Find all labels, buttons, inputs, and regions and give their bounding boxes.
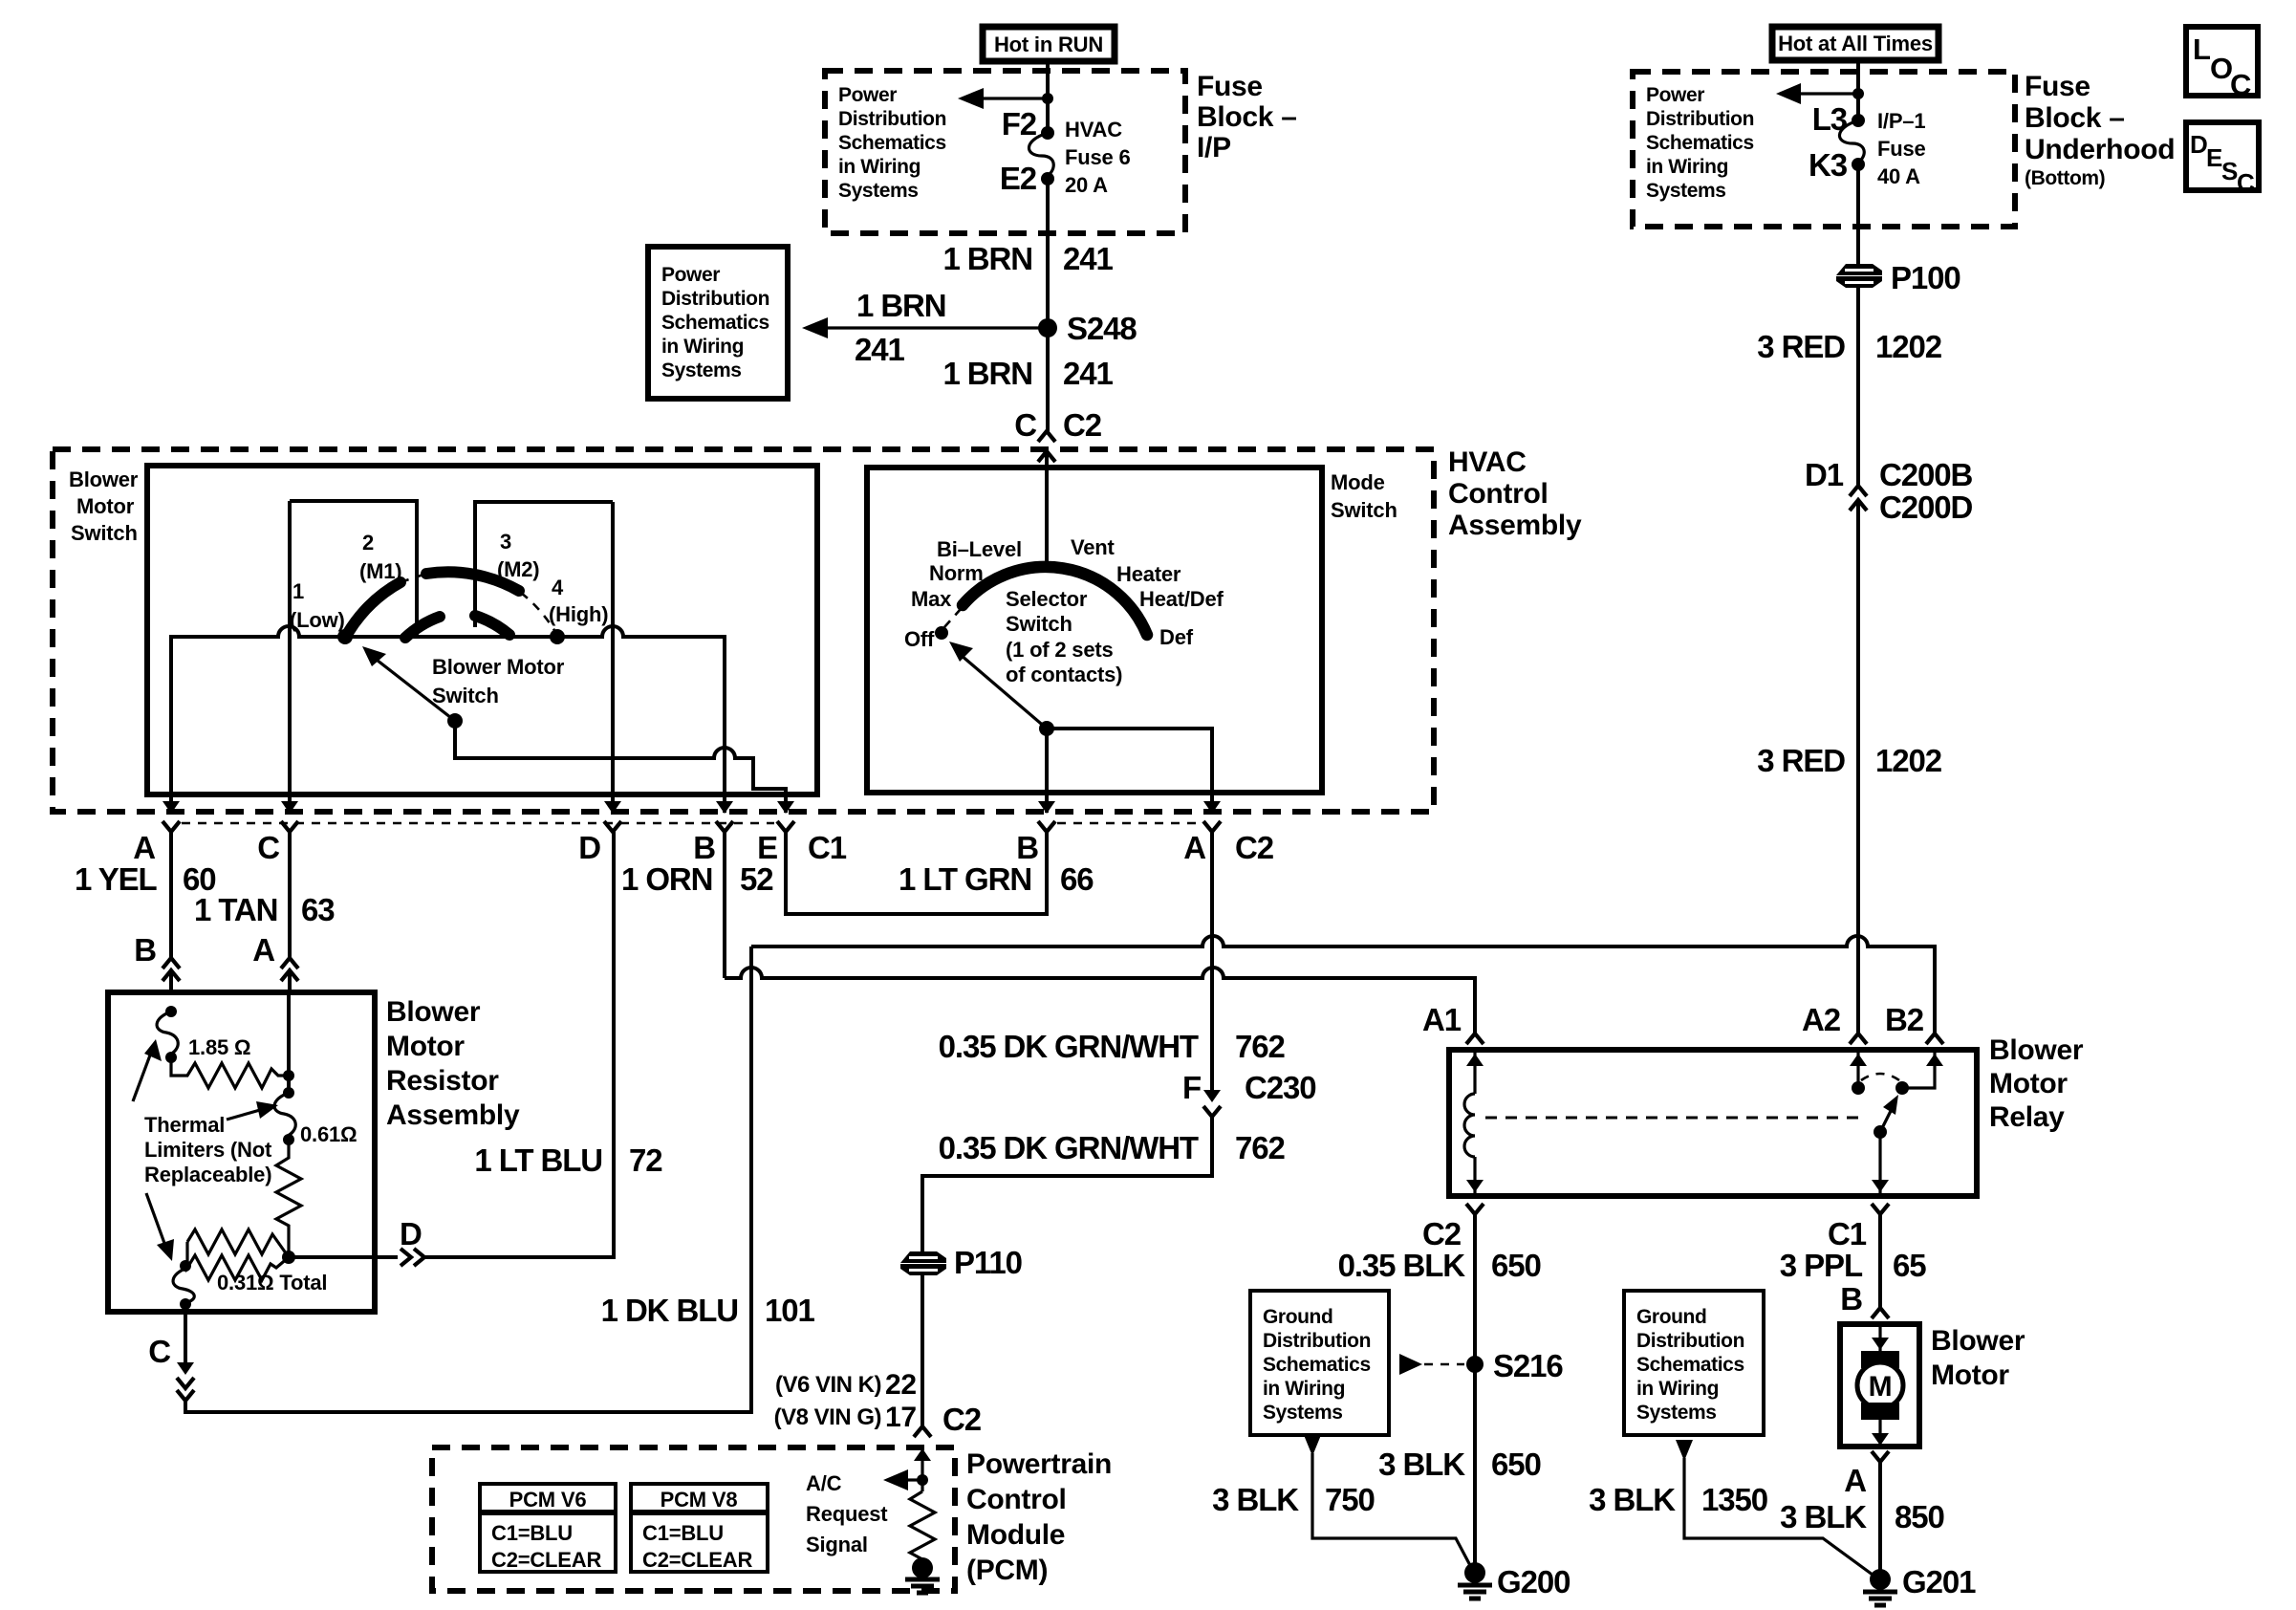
svg-text:C2: C2	[1235, 830, 1274, 865]
contact arc inner right	[475, 616, 509, 635]
node L3	[1852, 114, 1865, 127]
svg-text:Blower: Blower	[69, 468, 139, 491]
svg-text:D: D	[400, 1216, 422, 1251]
svg-text:(M2): (M2)	[497, 557, 539, 581]
svg-text:Blower: Blower	[1931, 1325, 2025, 1357]
pin A (mode) exit arrow and connector	[1210, 794, 1214, 813]
box LOC	[2186, 27, 2258, 96]
svg-text:650: 650	[1491, 1248, 1541, 1283]
svg-text:1.85 Ω: 1.85 Ω	[188, 1035, 250, 1059]
svg-text:Ground: Ground	[1636, 1306, 1706, 1328]
contact arc inner left	[405, 617, 440, 638]
node contact 1 Low	[337, 629, 353, 644]
PCM dashed box	[432, 1447, 955, 1591]
svg-text:Limiters (Not: Limiters (Not	[144, 1138, 272, 1162]
svg-text:Motor: Motor	[76, 494, 135, 518]
svg-text:3 RED: 3 RED	[1757, 743, 1845, 778]
arrow to limiter 3	[146, 1193, 165, 1246]
svg-text:B: B	[1840, 1281, 1862, 1316]
svg-text:A: A	[252, 932, 274, 968]
wire 3 PPL 65 (relay C1 to motor B)	[1878, 1214, 1882, 1308]
node at arrow junction	[1042, 93, 1053, 104]
svg-text:A: A	[1844, 1463, 1866, 1498]
svg-text:Control: Control	[966, 1484, 1067, 1515]
svg-text:C: C	[2230, 68, 2251, 101]
svg-text:Def: Def	[1159, 625, 1194, 649]
svg-text:Schematics: Schematics	[1263, 1354, 1371, 1376]
svg-text:E: E	[757, 830, 777, 865]
svg-text:1 DK BLU: 1 DK BLU	[601, 1293, 738, 1328]
svg-text:Thermal: Thermal	[144, 1113, 225, 1137]
svg-text:Bi–Level: Bi–Level	[937, 537, 1022, 561]
svg-text:C: C	[1014, 407, 1036, 443]
resistor 0.31 ohm horizontal (two rows)	[187, 1229, 289, 1257]
svg-text:3 BLK: 3 BLK	[1378, 1447, 1465, 1482]
svg-text:(V8 VIN G): (V8 VIN G)	[774, 1404, 881, 1430]
svg-text:Power: Power	[838, 84, 897, 106]
svg-text:72: 72	[629, 1142, 662, 1178]
svg-text:4: 4	[552, 576, 564, 599]
wire DK BLU feed to relay B2 (hops over GRN/WHT and RED)	[751, 936, 1935, 1033]
pin D exit arrow and connector	[611, 794, 615, 813]
svg-text:I/P–1: I/P–1	[1877, 109, 1925, 133]
svg-text:3 BLK: 3 BLK	[1212, 1482, 1299, 1517]
svg-text:63: 63	[301, 892, 335, 927]
svg-text:Hot at All Times: Hot at All Times	[1778, 32, 1933, 55]
svg-text:Control: Control	[1448, 478, 1549, 510]
svg-text:(M1): (M1)	[359, 559, 401, 583]
svg-text:C1: C1	[808, 830, 847, 865]
fuse I/P-1 Fuse 40A	[1839, 120, 1864, 164]
wire 0.35 DK GRN/WHT 762 (mode A down to C230)	[1210, 832, 1214, 1090]
svg-text:M: M	[1869, 1371, 1893, 1403]
svg-text:Blower: Blower	[1989, 1034, 2084, 1066]
pin A exit arrow and connector	[169, 794, 173, 813]
wire fuse to P100	[1856, 164, 1860, 265]
arrow to limiter 2	[227, 1110, 260, 1120]
node Off	[935, 626, 948, 640]
connector into motor	[1872, 1308, 1889, 1318]
label Hot in RUN	[983, 27, 1115, 61]
resistor in PCM	[910, 1491, 935, 1559]
svg-text:750: 750	[1325, 1482, 1375, 1517]
svg-text:0.35 BLK: 0.35 BLK	[1338, 1248, 1466, 1283]
svg-text:Assembly: Assembly	[386, 1099, 520, 1131]
svg-text:762: 762	[1235, 1130, 1286, 1165]
svg-text:Selector: Selector	[1006, 587, 1088, 611]
dashed arrow from ground box to S216	[1399, 1354, 1422, 1375]
svg-text:Systems: Systems	[1263, 1402, 1343, 1424]
wire pin D vertical	[611, 502, 615, 794]
wire wiper to pin E	[455, 721, 786, 794]
ground G201	[1870, 1569, 1891, 1590]
svg-text:1: 1	[292, 579, 304, 603]
svg-text:C2=CLEAR: C2=CLEAR	[642, 1548, 752, 1572]
svg-text:40 A: 40 A	[1877, 164, 1920, 188]
node A/C request junction	[917, 1474, 928, 1486]
svg-text:Norm: Norm	[929, 561, 984, 585]
svg-text:1 BRN: 1 BRN	[942, 356, 1032, 391]
wire P110 to PCM C2	[921, 1275, 924, 1426]
mode selector contact arc	[963, 567, 1147, 635]
svg-text:B: B	[1016, 830, 1038, 865]
svg-text:Fuse: Fuse	[1877, 137, 1926, 161]
svg-text:D: D	[2190, 130, 2208, 159]
svg-text:in Wiring: in Wiring	[661, 336, 744, 358]
svg-text:A: A	[1183, 830, 1205, 865]
wire 1 TAN 63	[288, 832, 292, 958]
svg-text:A1: A1	[1422, 1002, 1462, 1037]
wire arrow to power distribution	[984, 97, 1048, 99]
fuse block underhood dashed box	[1633, 72, 2015, 227]
svg-text:650: 650	[1491, 1447, 1541, 1482]
node F2	[1041, 126, 1054, 140]
svg-text:F2: F2	[1002, 106, 1037, 141]
svg-text:D: D	[578, 830, 600, 865]
svg-text:S248: S248	[1067, 311, 1137, 346]
pin C1 connector	[1872, 1204, 1889, 1214]
wire 1 ORN 52	[723, 832, 726, 978]
wire 1 DK BLU 101 (C to relay feed line)	[185, 946, 751, 1412]
svg-text:Switch: Switch	[432, 684, 499, 707]
svg-text:(PCM): (PCM)	[966, 1555, 1048, 1586]
svg-text:0.35 DK GRN/WHT: 0.35 DK GRN/WHT	[939, 1029, 1199, 1064]
svg-text:Systems: Systems	[838, 180, 919, 202]
resistor 0.61 ohm vertical	[276, 1140, 301, 1257]
switch wiper arm	[447, 713, 463, 729]
svg-text:762: 762	[1235, 1029, 1286, 1064]
wire 1 LT GRN 66 (pin E to mode pin B)	[786, 832, 1047, 914]
svg-text:Systems: Systems	[661, 359, 742, 381]
wire ORN to relay A1 (hops over DK BLU and GRN/WHT)	[725, 968, 1475, 1033]
svg-text:HVAC: HVAC	[1065, 118, 1122, 141]
wire 3 BLK 850 to G201	[1878, 1462, 1882, 1576]
wire into PCM with direction arrow	[921, 1449, 923, 1491]
svg-text:1 BRN: 1 BRN	[942, 241, 1032, 276]
ground in PCM	[912, 1557, 933, 1578]
svg-text:Block –: Block –	[1197, 101, 1297, 133]
svg-text:1 LT BLU: 1 LT BLU	[474, 1142, 602, 1178]
svg-text:1 YEL: 1 YEL	[75, 861, 158, 897]
arrow to limiter 1	[133, 1053, 151, 1101]
svg-text:0.31Ω Total: 0.31Ω Total	[217, 1271, 327, 1295]
svg-text:Power: Power	[1646, 84, 1704, 106]
svg-text:P100: P100	[1891, 260, 1960, 295]
svg-text:66: 66	[1060, 861, 1094, 897]
svg-text:1 BRN: 1 BRN	[856, 288, 946, 323]
inline connector P100	[1836, 260, 1960, 295]
svg-text:Module: Module	[966, 1519, 1065, 1551]
pin A1 connector	[1466, 1033, 1484, 1044]
svg-text:Power: Power	[661, 264, 720, 286]
svg-text:B: B	[134, 932, 156, 968]
svg-text:Fuse 6: Fuse 6	[1065, 145, 1131, 169]
svg-text:Ground: Ground	[1263, 1306, 1332, 1328]
node D junction	[282, 1251, 295, 1264]
wire feed into mode switch	[1045, 451, 1049, 566]
svg-text:1 LT GRN: 1 LT GRN	[899, 861, 1031, 897]
svg-text:PCM V8: PCM V8	[661, 1488, 738, 1512]
svg-text:0.35 DK GRN/WHT: 0.35 DK GRN/WHT	[939, 1130, 1199, 1165]
svg-text:Schematics: Schematics	[661, 312, 769, 334]
wire 0.35 BLK 650	[1473, 1214, 1477, 1573]
wire pin C vertical	[288, 501, 292, 794]
box power distribution schematics	[648, 247, 788, 399]
svg-text:(V6 VIN K): (V6 VIN K)	[775, 1372, 881, 1398]
svg-text:241: 241	[1063, 241, 1114, 276]
wire 1 BRN 241 branch to power distribution	[828, 326, 1048, 329]
svg-text:1 TAN: 1 TAN	[194, 892, 277, 927]
svg-text:Switch: Switch	[71, 521, 138, 545]
svg-text:Switch: Switch	[1331, 498, 1397, 522]
fuse block I/P dashed box	[825, 71, 1185, 233]
svg-text:3 PPL: 3 PPL	[1780, 1248, 1863, 1283]
svg-text:G201: G201	[1902, 1564, 1976, 1599]
splice S216	[1466, 1356, 1484, 1373]
svg-text:I/P: I/P	[1197, 132, 1231, 163]
mode switch wiper	[1039, 721, 1054, 736]
relay coil	[1473, 1050, 1476, 1094]
pin E exit arrow and connector	[784, 794, 788, 813]
svg-text:E2: E2	[1000, 161, 1037, 196]
svg-text:B2: B2	[1885, 1002, 1924, 1037]
svg-text:A2: A2	[1802, 1002, 1841, 1037]
connector F C230	[1203, 1090, 1221, 1102]
thermal limiter 3	[180, 1260, 191, 1272]
node S248	[1038, 318, 1057, 337]
wire 3 BLK 750 from ground box to G200	[1304, 1435, 1321, 1456]
svg-text:(High): (High)	[549, 602, 608, 626]
svg-text:L: L	[2193, 33, 2211, 66]
svg-text:F: F	[1182, 1070, 1201, 1105]
motor symbol	[1878, 1324, 1881, 1351]
svg-text:241: 241	[1063, 356, 1114, 391]
wire from Hot in RUN down to fuse F2	[1046, 61, 1050, 133]
wire wiper to pin B	[1045, 729, 1049, 794]
wire wiper to pin A	[1047, 729, 1212, 794]
svg-text:Systems: Systems	[1646, 180, 1726, 202]
svg-text:241: 241	[855, 332, 905, 367]
wire A down	[287, 992, 291, 1093]
node contact 4 High	[550, 629, 565, 644]
svg-text:Schematics: Schematics	[1636, 1354, 1744, 1376]
svg-text:A: A	[133, 830, 155, 865]
svg-text:C2=CLEAR: C2=CLEAR	[491, 1548, 601, 1572]
svg-text:(1 of 2 sets: (1 of 2 sets	[1006, 638, 1114, 662]
svg-text:D1: D1	[1805, 457, 1844, 492]
svg-text:in Wiring: in Wiring	[838, 156, 921, 178]
svg-text:Signal: Signal	[806, 1533, 868, 1556]
svg-text:850: 850	[1895, 1499, 1944, 1534]
svg-text:Resistor: Resistor	[386, 1065, 499, 1097]
svg-text:65: 65	[1893, 1248, 1926, 1283]
svg-text:in Wiring: in Wiring	[1646, 156, 1728, 178]
svg-text:Assembly: Assembly	[1448, 510, 1582, 541]
dashed mechanical link	[1485, 1117, 1864, 1120]
svg-text:S: S	[2221, 157, 2238, 185]
svg-text:Blower: Blower	[386, 996, 481, 1028]
connector C1 dashed link	[182, 822, 774, 825]
svg-text:Distribution: Distribution	[661, 288, 769, 310]
svg-text:Heater: Heater	[1116, 562, 1181, 586]
pin C exit arrow and connector	[288, 794, 292, 813]
svg-text:in Wiring: in Wiring	[1263, 1378, 1345, 1400]
wire contact bus (pin A to pin B)	[171, 626, 725, 794]
svg-text:Max: Max	[911, 587, 952, 611]
HVAC control assembly dashed box	[53, 449, 1434, 812]
relay contact A2 side	[1856, 1050, 1859, 1088]
wire 3 RED 1202 (C200 to relay A2)	[1856, 500, 1860, 1033]
thermal limiter 2	[283, 1087, 294, 1099]
ground G200	[1464, 1562, 1485, 1583]
svg-text:Off: Off	[904, 627, 935, 651]
fuse HVAC Fuse 6 20A	[1029, 133, 1053, 179]
svg-text:C2: C2	[1422, 1216, 1462, 1251]
blower motor box	[1840, 1324, 1919, 1447]
connector C2 at PCM	[914, 1426, 931, 1437]
table PCM V8	[631, 1484, 768, 1572]
A/C request signal arrow	[908, 1478, 922, 1481]
resistor 1.85 ohm	[171, 1057, 289, 1088]
svg-text:in Wiring: in Wiring	[1636, 1378, 1719, 1400]
connector out of motor	[1872, 1451, 1889, 1462]
svg-text:1202: 1202	[1875, 329, 1942, 364]
contact arc top M1-M2	[426, 572, 519, 591]
svg-text:C200B: C200B	[1879, 457, 1972, 492]
svg-text:HVAC: HVAC	[1448, 446, 1527, 478]
relay movable contact arm	[1874, 1125, 1887, 1139]
svg-text:52: 52	[740, 861, 773, 897]
svg-text:C2: C2	[942, 1402, 982, 1437]
svg-text:Schematics: Schematics	[1646, 132, 1754, 154]
dashed link arc to contact 4	[521, 593, 555, 632]
wire 1 BRN 241 (fuse to S248)	[1046, 179, 1050, 431]
svg-text:Distribution: Distribution	[838, 108, 946, 130]
svg-text:C230: C230	[1245, 1070, 1316, 1105]
svg-text:C1: C1	[1828, 1216, 1867, 1251]
svg-text:Distribution: Distribution	[1636, 1330, 1744, 1352]
svg-text:Fuse: Fuse	[1197, 71, 1263, 102]
wire arrow to power distribution	[1801, 92, 1858, 95]
svg-text:G200: G200	[1497, 1564, 1570, 1599]
wire D output with pass-through connector	[289, 1255, 398, 1259]
connector C2 dashed link	[1057, 822, 1202, 825]
svg-text:C200D: C200D	[1879, 490, 1972, 525]
svg-text:3: 3	[500, 530, 511, 554]
svg-text:Hot in RUN: Hot in RUN	[994, 33, 1103, 56]
svg-text:C: C	[257, 830, 279, 865]
svg-text:Block –: Block –	[2025, 102, 2125, 134]
svg-text:3 BLK: 3 BLK	[1780, 1499, 1867, 1534]
svg-text:Heat/Def: Heat/Def	[1139, 587, 1224, 611]
svg-text:3 RED: 3 RED	[1757, 329, 1845, 364]
blower motor relay box	[1449, 1050, 1977, 1196]
dashed alternate contact arc	[1861, 1074, 1899, 1080]
wire 0.35 DK GRN/WHT 762 (C230 to P110)	[922, 1117, 1212, 1251]
blower motor resistor assembly box	[108, 992, 375, 1312]
svg-text:Powertrain: Powertrain	[966, 1448, 1112, 1480]
ground distribution box right	[1624, 1291, 1764, 1435]
svg-text:2: 2	[362, 531, 374, 555]
svg-text:0.61Ω: 0.61Ω	[300, 1122, 357, 1146]
svg-text:Underhood: Underhood	[2025, 134, 2175, 165]
svg-text:S216: S216	[1493, 1348, 1563, 1383]
dashed link arc2 to arc3	[401, 574, 426, 582]
svg-text:3 BLK: 3 BLK	[1589, 1482, 1676, 1517]
svg-text:B: B	[693, 830, 715, 865]
svg-text:(Low): (Low)	[290, 608, 345, 632]
box DESC	[2186, 122, 2259, 190]
svg-text:Schematics: Schematics	[838, 132, 946, 154]
svg-text:Blower Motor: Blower Motor	[432, 655, 565, 679]
pin B exit arrow and connector	[723, 794, 726, 813]
svg-text:E: E	[2206, 143, 2222, 172]
table PCM V6	[480, 1484, 616, 1572]
svg-text:Request: Request	[806, 1502, 888, 1526]
svg-text:17: 17	[885, 1402, 917, 1433]
ground distribution box left	[1250, 1291, 1389, 1435]
svg-text:of contacts): of contacts)	[1006, 663, 1122, 686]
dashed link Off to Max	[944, 609, 961, 627]
svg-text:PCM V6: PCM V6	[509, 1488, 587, 1512]
svg-text:Distribution: Distribution	[1263, 1330, 1371, 1352]
svg-text:20 A: 20 A	[1065, 173, 1108, 197]
svg-text:C: C	[2237, 168, 2255, 197]
blower switch terminal plate 1	[290, 501, 417, 637]
svg-text:C1=BLU: C1=BLU	[491, 1521, 573, 1545]
relay contact B2 side	[1902, 1050, 1935, 1088]
svg-text:Motor: Motor	[1989, 1068, 2068, 1099]
wire 3 BLK 1350 from ground box to G201	[1676, 1440, 1693, 1461]
label Hot at All Times	[1772, 27, 1939, 60]
svg-text:22: 22	[885, 1369, 917, 1401]
wire from Hot at All Times to fuse L3	[1856, 60, 1860, 120]
svg-text:Vent: Vent	[1071, 535, 1116, 559]
svg-text:1350: 1350	[1701, 1482, 1767, 1517]
blower motor switch box	[147, 466, 817, 794]
svg-text:Replaceable): Replaceable)	[144, 1163, 271, 1186]
svg-text:1202: 1202	[1875, 743, 1942, 778]
pin C2 connector	[1466, 1204, 1484, 1214]
inline connector P110	[900, 1245, 1022, 1280]
pin B2 connector	[1926, 1033, 1943, 1044]
svg-text:1 ORN: 1 ORN	[621, 861, 712, 897]
svg-text:Distribution: Distribution	[1646, 108, 1754, 130]
mode switch box	[867, 468, 1322, 793]
svg-text:C: C	[148, 1334, 170, 1369]
svg-text:Mode: Mode	[1331, 470, 1385, 494]
svg-text:Fuse: Fuse	[2025, 71, 2090, 102]
wire 3 RED 1202 (P100 to C200)	[1856, 288, 1860, 486]
svg-text:Systems: Systems	[1636, 1402, 1717, 1424]
svg-text:Motor: Motor	[386, 1031, 465, 1062]
svg-text:Relay: Relay	[1989, 1101, 2065, 1133]
blower switch terminal plate 2	[475, 502, 613, 627]
svg-text:A/C: A/C	[806, 1471, 842, 1495]
svg-text:C2: C2	[1063, 407, 1102, 443]
wire 1 YEL 60	[169, 832, 173, 958]
contact arc 1-2	[348, 582, 401, 633]
pin A2 connector	[1850, 1033, 1867, 1044]
svg-text:K3: K3	[1809, 147, 1848, 183]
pin B (mode) exit arrow and connector	[1045, 794, 1049, 813]
svg-text:C1=BLU: C1=BLU	[642, 1521, 724, 1545]
svg-text:P110: P110	[954, 1245, 1022, 1280]
svg-text:Switch: Switch	[1006, 612, 1072, 636]
node junction at A wire	[283, 1070, 294, 1081]
svg-text:Motor: Motor	[1931, 1360, 2009, 1391]
svg-text:(Bottom): (Bottom)	[2025, 167, 2105, 189]
